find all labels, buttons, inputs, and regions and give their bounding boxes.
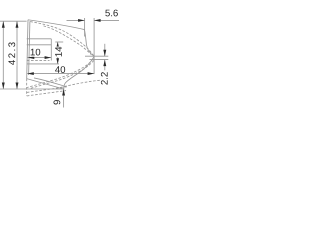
shelf line H2 <box>27 44 52 46</box>
extension line 2.2 upper <box>85 55 108 57</box>
arrow 2.2 top <box>103 50 106 57</box>
arrow 42.3 inner bottom <box>16 83 19 90</box>
arrow 42.3 inner top <box>16 21 19 28</box>
dashed bottom diagonal right <box>56 80 101 88</box>
part top edge solid <box>28 20 94 57</box>
arrow 42.3 outer top <box>2 21 5 28</box>
text 40 <box>55 66 65 73</box>
text 5.6 <box>105 10 118 17</box>
extension line 5.6 right / 40 right <box>93 18 95 74</box>
part left outer edge <box>27 20 28 79</box>
dimension line 2.2 vertical lower tail <box>104 60 106 71</box>
arrow 42.3 outer bottom <box>2 83 5 90</box>
arrow 5.6 left <box>78 19 85 22</box>
part top edge dashed outer <box>30 22 93 56</box>
arrow 14 bottom <box>56 58 59 64</box>
arrow 5.6 right <box>94 19 101 22</box>
part left edge dashed continuation <box>26 79 28 96</box>
dashed bottom diagonal 2 <box>27 91 66 96</box>
arrow 40 right <box>88 72 95 75</box>
part bottom slant outer <box>27 79 64 89</box>
dimension line 9 vertical <box>63 89 65 108</box>
shelf line H3 dashed <box>27 59 50 61</box>
dashed lower inner <box>31 60 94 88</box>
dimension line 2.2 vertical upper tail <box>104 44 106 56</box>
extension line 2.2 lower <box>90 59 109 61</box>
shelf line H1 <box>27 38 52 40</box>
dimension line 5.6 left tail <box>67 19 85 21</box>
text 2.2 <box>101 72 108 84</box>
part bottom slant inner <box>34 78 66 87</box>
extension line 5.6 left <box>84 18 86 37</box>
extension line 10 right <box>50 39 52 61</box>
extension line bottom-left <box>0 88 65 90</box>
white masks behind texts <box>7 41 63 66</box>
dimension line 40 <box>27 73 94 75</box>
text 9 <box>53 100 60 104</box>
dimension line 14 vertical <box>57 42 59 64</box>
dashed bottom diagonal 1 <box>27 87 68 93</box>
arrow 10 right <box>45 56 52 59</box>
extension line 14 top <box>55 41 63 43</box>
dashed lower curve <box>27 59 93 88</box>
arrow 40 left <box>27 72 34 75</box>
arrow 9 up <box>62 89 65 96</box>
dimension line 5.6 right tail <box>94 19 119 21</box>
text 42.3 <box>8 42 15 65</box>
arrow 10 left <box>28 56 35 59</box>
dimension line 10 <box>28 57 52 59</box>
arrow 14 top <box>56 42 59 48</box>
dimension line 42.3 outer <box>2 21 4 89</box>
extension line top-left <box>0 20 27 22</box>
part top edge dashed inner <box>44 26 92 55</box>
arrow 2.2 bottom <box>103 60 106 67</box>
part lower-right curve solid <box>64 56 95 89</box>
shelf line H4 <box>27 63 59 65</box>
dimension line 42.3 inner <box>16 21 18 89</box>
text 14 <box>55 47 62 57</box>
text 10 <box>31 49 41 56</box>
part left inner edge <box>29 21 30 75</box>
